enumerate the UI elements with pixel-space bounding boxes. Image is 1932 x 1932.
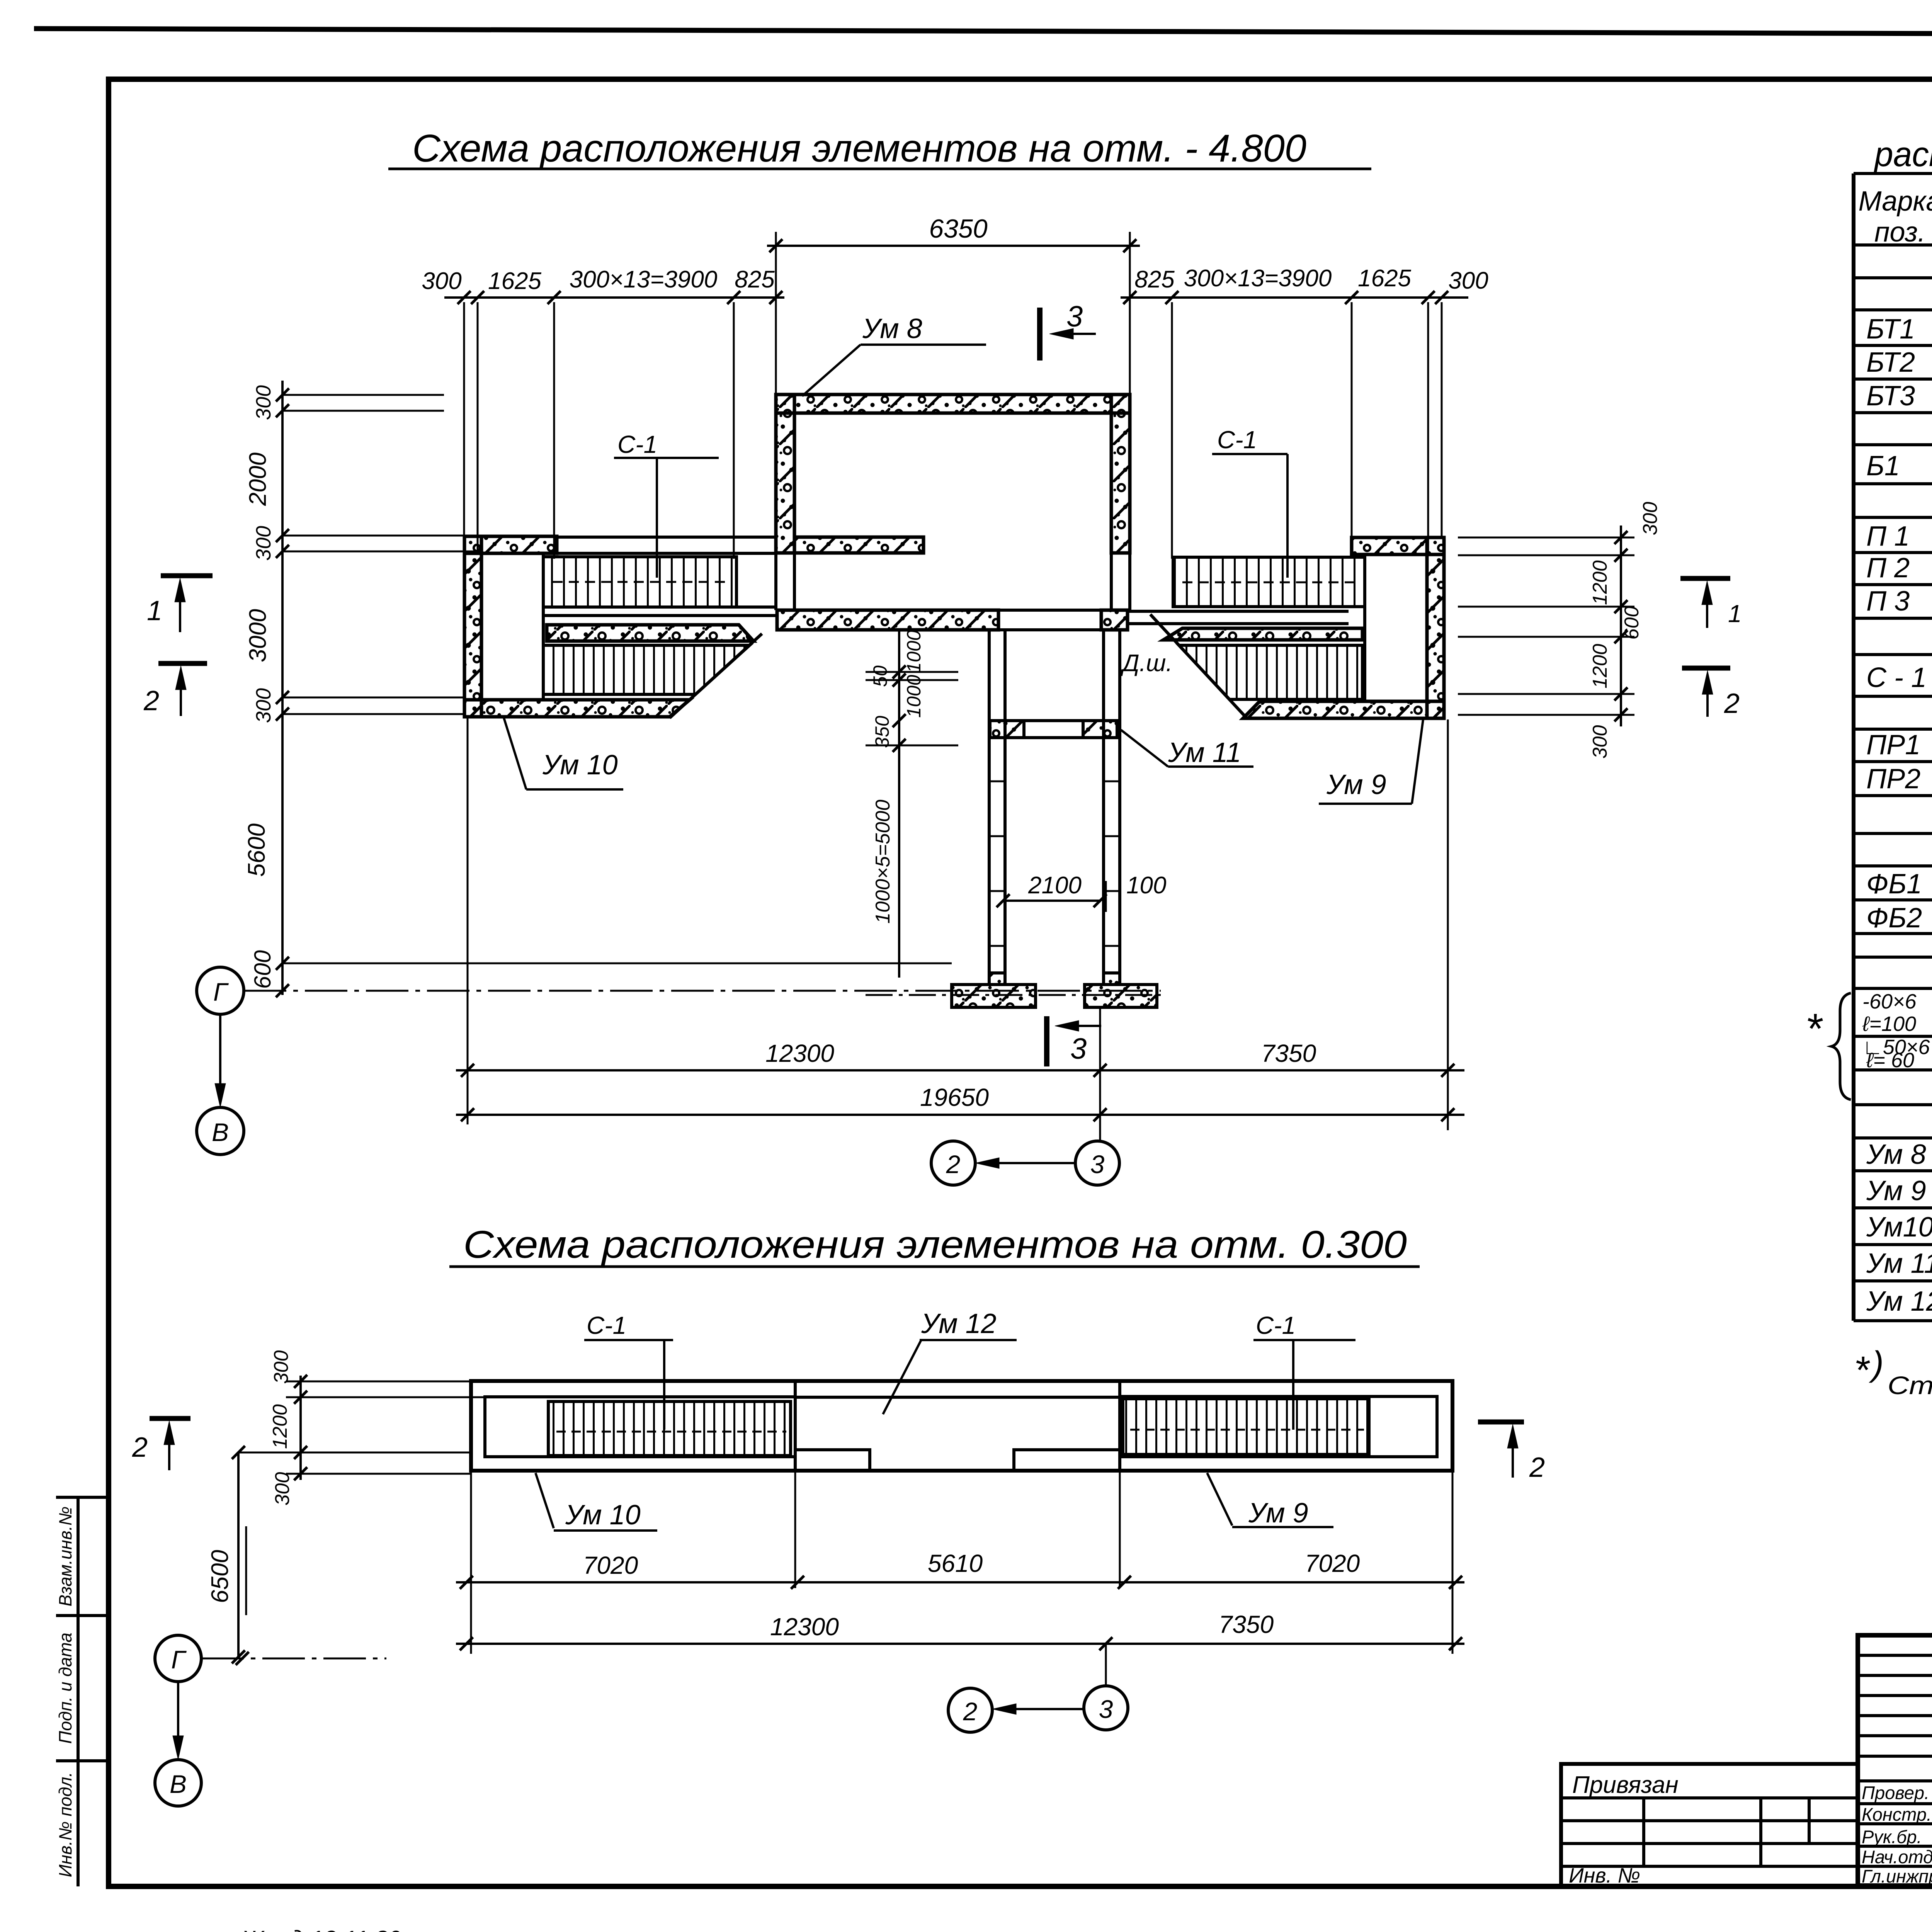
svg-text:5610: 5610 [928,1549,983,1577]
svg-text:6350: 6350 [929,214,987,243]
svg-text:600: 600 [1621,606,1643,640]
axis В upper [197,1107,244,1155]
lower band outer [471,1381,1452,1471]
svg-text:1: 1 [147,595,162,626]
stair flight lower right [1179,645,1362,699]
monolith wall Ум8 right [1111,395,1130,553]
lintel Ум11 [989,719,1120,722]
monolith wall Ум10 top [464,536,557,553]
pit right wall [1102,630,1105,973]
svg-text:1625: 1625 [1358,265,1411,292]
svg-text:2: 2 [1724,688,1740,719]
svg-text:Ум 8: Ум 8 [862,313,922,344]
svg-text:Схема расположения элементов: Схема расположения элементов на отм. 0.3… [463,1223,1407,1266]
lower left dim chain [299,1376,302,1480]
left dim chain [281,381,284,995]
band inner top Ум12 [795,1396,1120,1399]
svg-text:5600: 5600 [243,823,270,877]
monolith wall Ум9 right [1427,537,1444,718]
svg-text:В: В [212,1118,229,1146]
axis 2 circle lower [948,1688,992,1732]
section mark 1 left [161,573,213,578]
svg-text:ℓ= 60: ℓ= 60 [1866,1049,1914,1072]
axis Г lower [155,1635,201,1682]
axis 3 circle lower [1084,1686,1128,1730]
svg-text:Провер.: Провер. [1862,1782,1929,1803]
svg-text:1625: 1625 [488,268,541,294]
svg-text:1200: 1200 [1589,560,1611,605]
svg-text:*: * [1854,1349,1870,1392]
title block horizontals left grid [1858,1654,1932,1657]
pit wall joints [989,781,1005,782]
svg-text:С-1: С-1 [617,430,657,458]
svg-text:12300: 12300 [770,1613,839,1641]
sheet top edge [34,29,1932,36]
svg-text:Ум 12: Ум 12 [1866,1286,1932,1317]
pit left wall [988,630,991,973]
svg-text:825: 825 [1134,266,1175,293]
monolith wall Ум9 top [1352,537,1444,554]
svg-text:поз.: поз. [1874,217,1925,248]
monolith wall Ум8 left [776,395,794,553]
dim 6500 [237,1452,240,1658]
svg-text:ФБ2: ФБ2 [1866,903,1922,934]
landing outline left [481,553,543,700]
svg-text:Ум 9: Ум 9 [1866,1175,1926,1206]
svg-text:3: 3 [1090,1150,1105,1179]
signature rows [1858,1779,1932,1782]
svg-text:Г: Г [213,978,229,1006]
svg-text:Схема расположения элементов: Схема расположения элементов на отм. - 4… [412,127,1306,170]
stair flight C-1 upper left [543,557,736,607]
svg-text:Нач.отд: Нач.отд [1862,1847,1932,1867]
section mark 2 left [158,661,207,666]
svg-text:2: 2 [143,685,159,716]
bottom notch left [795,1450,870,1469]
landing outline right [1365,554,1427,701]
svg-text:Привязан: Привязан [1572,1772,1679,1798]
svg-text:-60×6: -60×6 [1862,990,1917,1013]
svg-text:1000×5=5000: 1000×5=5000 [872,799,894,923]
svg-text:6500: 6500 [207,1550,233,1603]
bottom wall strip plain [998,609,1104,612]
svg-text:Б1: Б1 [1866,451,1900,481]
dim 7020/5610/7020 [456,1581,1464,1583]
svg-text:100: 100 [1126,872,1166,899]
stairwell inner left [485,1397,795,1457]
pit dim chain [898,630,900,978]
flight C-1 lower plan right [1123,1399,1369,1454]
footing pad left [952,985,1036,1007]
footing stems [989,973,1005,985]
svg-text:2100: 2100 [1028,872,1082,899]
footing axis line [866,994,1161,996]
corridor lines left [557,536,776,539]
svg-text:Рук.бр.: Рук.бр. [1862,1827,1922,1847]
svg-text:Ум 11: Ум 11 [1866,1248,1932,1279]
band dividers [794,1381,797,1471]
svg-text:300: 300 [1639,502,1662,536]
svg-text:825: 825 [735,266,775,293]
svg-text:*: * [1805,1005,1823,1053]
svg-text:300×13=3900: 300×13=3900 [1184,265,1332,292]
svg-text:Инв.№ подл.: Инв.№ подл. [55,1772,75,1878]
svg-text:ФБ1: ФБ1 [1866,869,1922,900]
svg-text:Ум 8: Ум 8 [1866,1139,1926,1170]
svg-text:П 3: П 3 [1866,586,1910,617]
top dim chain left [444,296,784,299]
dim 12300 / 7350 [456,1069,1464,1071]
svg-text:П 1: П 1 [1866,521,1910,552]
svg-text:ПР1: ПР1 [1866,730,1920,760]
svg-text:Взам.инв.№: Взам.инв.№ [55,1507,75,1607]
section mark 2 lower right [1478,1420,1524,1425]
bottom wall strip hatched [777,610,998,630]
svg-text:Ум 11: Ум 11 [1168,737,1241,768]
svg-text:2: 2 [946,1150,961,1179]
svg-text:В: В [170,1770,187,1798]
section mark 2 right [1682,666,1730,671]
svg-text:П 2: П 2 [1866,553,1910,583]
title block outer [1858,1635,1932,1886]
stair flight lower left [543,645,750,694]
svg-text:2: 2 [963,1697,978,1726]
svg-text:Констр.: Констр. [1862,1804,1932,1825]
svg-text:2: 2 [132,1432,148,1463]
svg-text:3: 3 [1070,1032,1087,1065]
stair flight C-1 upper right [1173,557,1365,607]
expansion joint diagonal [1150,614,1247,718]
svg-text:Инв. №: Инв. № [1569,1864,1640,1887]
section mark 2 lower left [150,1416,190,1421]
svg-text:3: 3 [1099,1695,1113,1723]
svg-text:7350: 7350 [1219,1611,1274,1638]
dim 12300/7350 lower [456,1643,1464,1645]
monolith wall Ум10 bottom [464,700,690,717]
svg-text:300: 300 [1448,267,1488,294]
svg-text:7350: 7350 [1261,1039,1316,1067]
svg-text:С-1: С-1 [587,1311,626,1339]
top dim chain right [1121,296,1468,299]
footing pad right [1085,985,1157,1007]
svg-text:ПР2: ПР2 [1866,764,1920,794]
svg-text:2: 2 [1529,1452,1545,1483]
plain wall lines below right [1110,553,1113,611]
svg-text:Ум 9: Ум 9 [1248,1498,1308,1529]
svg-text:300: 300 [252,526,275,561]
svg-text:БТ1: БТ1 [1866,314,1915,345]
svg-text:Ум10: Ум10 [1866,1212,1932,1243]
svg-text:Г: Г [171,1645,187,1674]
bottom wall strip end block [1101,610,1128,630]
svg-text:12300: 12300 [765,1039,834,1067]
specification table grid [1854,172,1932,175]
extensions lower [470,1471,472,1654]
svg-text:БТ3: БТ3 [1866,381,1915,412]
svg-text:С-1: С-1 [1256,1311,1296,1339]
svg-text:300: 300 [422,268,461,294]
svg-text:300×13=3900: 300×13=3900 [570,266,718,293]
svg-text:Ум 9: Ум 9 [1326,769,1386,800]
svg-text:расположения элементов фр: расположения элементов фрагмента плана 5 [1873,135,1932,174]
svg-text:3000: 3000 [245,609,271,662]
svg-text:Ум 10: Ум 10 [565,1500,641,1531]
svg-text:Гл.инжпр.: Гл.инжпр. [1862,1866,1932,1886]
svg-text:300: 300 [271,1472,294,1506]
stairwell inner right [1120,1396,1437,1457]
dim 2100 [1003,900,1100,902]
svg-text:600: 600 [250,950,276,989]
svg-text:19650: 19650 [920,1083,989,1111]
svg-text:1200: 1200 [269,1404,291,1449]
axis Г upper [197,967,244,1014]
svg-text:1200: 1200 [1589,644,1611,689]
svg-text:БТ2: БТ2 [1866,347,1915,378]
svg-text:Подп. и дата: Подп. и дата [55,1633,75,1744]
svg-text:Ум 10: Ум 10 [542,750,618,781]
bottom notch right [1014,1450,1120,1469]
svg-text:300: 300 [252,385,275,420]
svg-text:300: 300 [1589,725,1611,759]
svg-text:300: 300 [252,688,275,723]
section mark 3 bottom [1044,1016,1049,1066]
monolith wall Ум9 bottom [1243,701,1444,718]
svg-text:Жанд 13.11.89 г: Жанд 13.11.89 г [240,1926,420,1932]
corridor lines right [1128,610,1349,613]
svg-text:50: 50 [869,665,891,687]
svg-text:3: 3 [1066,300,1083,333]
svg-text:Сталь марки ВСт3пс 6 по: Сталь марки ВСт3пс 6 по ГОСТ 380-71 [1888,1371,1932,1400]
section mark 1 right [1680,576,1730,581]
svg-text:1000: 1000 [903,630,925,673]
axis 2 circle upper [931,1141,975,1185]
mid wall strip right stair [1163,628,1362,640]
axis В lower [155,1760,201,1806]
plain wall lines below left [774,553,777,610]
svg-text:С - 1: С - 1 [1866,662,1927,693]
svg-text:Д.ш.: Д.ш. [1120,650,1173,677]
svg-text:300: 300 [270,1350,293,1384]
svg-text:7020: 7020 [1305,1549,1360,1577]
diagonal cut left block [670,634,762,718]
monolith wall Ум8 top [776,395,1130,413]
flight C-1 lower plan left [548,1401,791,1456]
svg-text:7020: 7020 [583,1551,638,1579]
svg-text:ℓ=100: ℓ=100 [1862,1012,1916,1036]
monolith wall Ум10 left [464,536,481,717]
svg-text:2000: 2000 [245,452,271,506]
svg-text:1: 1 [1728,600,1742,628]
extension lines bottom [467,718,469,1124]
privyazan block [1561,1764,1858,1886]
svg-text:С-1: С-1 [1217,426,1257,454]
axis 3 circle upper [1075,1141,1119,1185]
svg-text:350: 350 [871,716,893,748]
svg-text:Марка: Марка [1859,186,1932,217]
dim 19650 [456,1114,1464,1116]
section mark 3 top [1037,308,1043,361]
svg-text:1000: 1000 [903,675,925,718]
dim 6350 [767,245,1140,247]
wall stub inner left [794,537,923,553]
left margin stamp boxes [77,1497,80,1886]
right dim chain upper plan [1620,526,1622,726]
mid wall strip left stair [547,625,753,641]
svg-text:Ум 12: Ум 12 [921,1308,997,1339]
